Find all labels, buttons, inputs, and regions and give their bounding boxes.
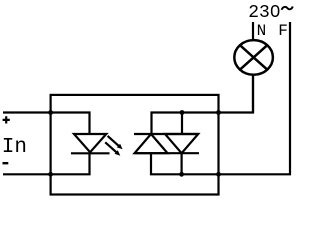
junction dot top rail at box edge (216, 110, 221, 115)
triac bottom bar (135, 152, 200, 154)
junction dot - input at box edge (48, 172, 53, 177)
junction dot triac top stub (180, 110, 185, 115)
wire bottom rail triac to F line (151, 22, 290, 174)
wire + input (In +) to LED anode (3, 113, 90, 134)
lamp L1 circle (234, 40, 273, 75)
label + polarity (3, 116, 10, 123)
LED light arrow 1 (108, 136, 123, 149)
svg-text:F: F (278, 22, 288, 40)
junction dot + input at box edge (48, 110, 53, 115)
svg-text:In: In (2, 136, 27, 159)
label - polarity (3, 162, 9, 164)
wire lamp bottom stub (252, 75, 254, 113)
label F (278, 22, 288, 40)
SSR module box (51, 95, 219, 195)
label N (257, 22, 267, 40)
label 230~ supply (248, 3, 293, 23)
svg-text:N: N (257, 22, 267, 40)
wire top rail triac to lamp (152, 75, 254, 134)
wire triac right bottom stub (181, 153, 183, 174)
wire - input (In -) to LED cathode (3, 153, 90, 174)
junction dot bottom rail at box edge (216, 172, 221, 177)
wire triac right top stub (181, 113, 183, 134)
LED D1 cathode bar (71, 152, 110, 154)
thyristor triangle up (left) (135, 134, 168, 153)
lamp L1 cross (240, 45, 267, 69)
LED D1 triangle (74, 134, 106, 152)
wire lamp top stub (N line) (252, 22, 254, 40)
junction dot triac bottom stub (179, 172, 184, 177)
label In (2, 136, 27, 159)
thyristor triangle down (right) (165, 134, 198, 153)
triac top bar (134, 133, 199, 135)
LED light arrow 2 (105, 142, 120, 155)
